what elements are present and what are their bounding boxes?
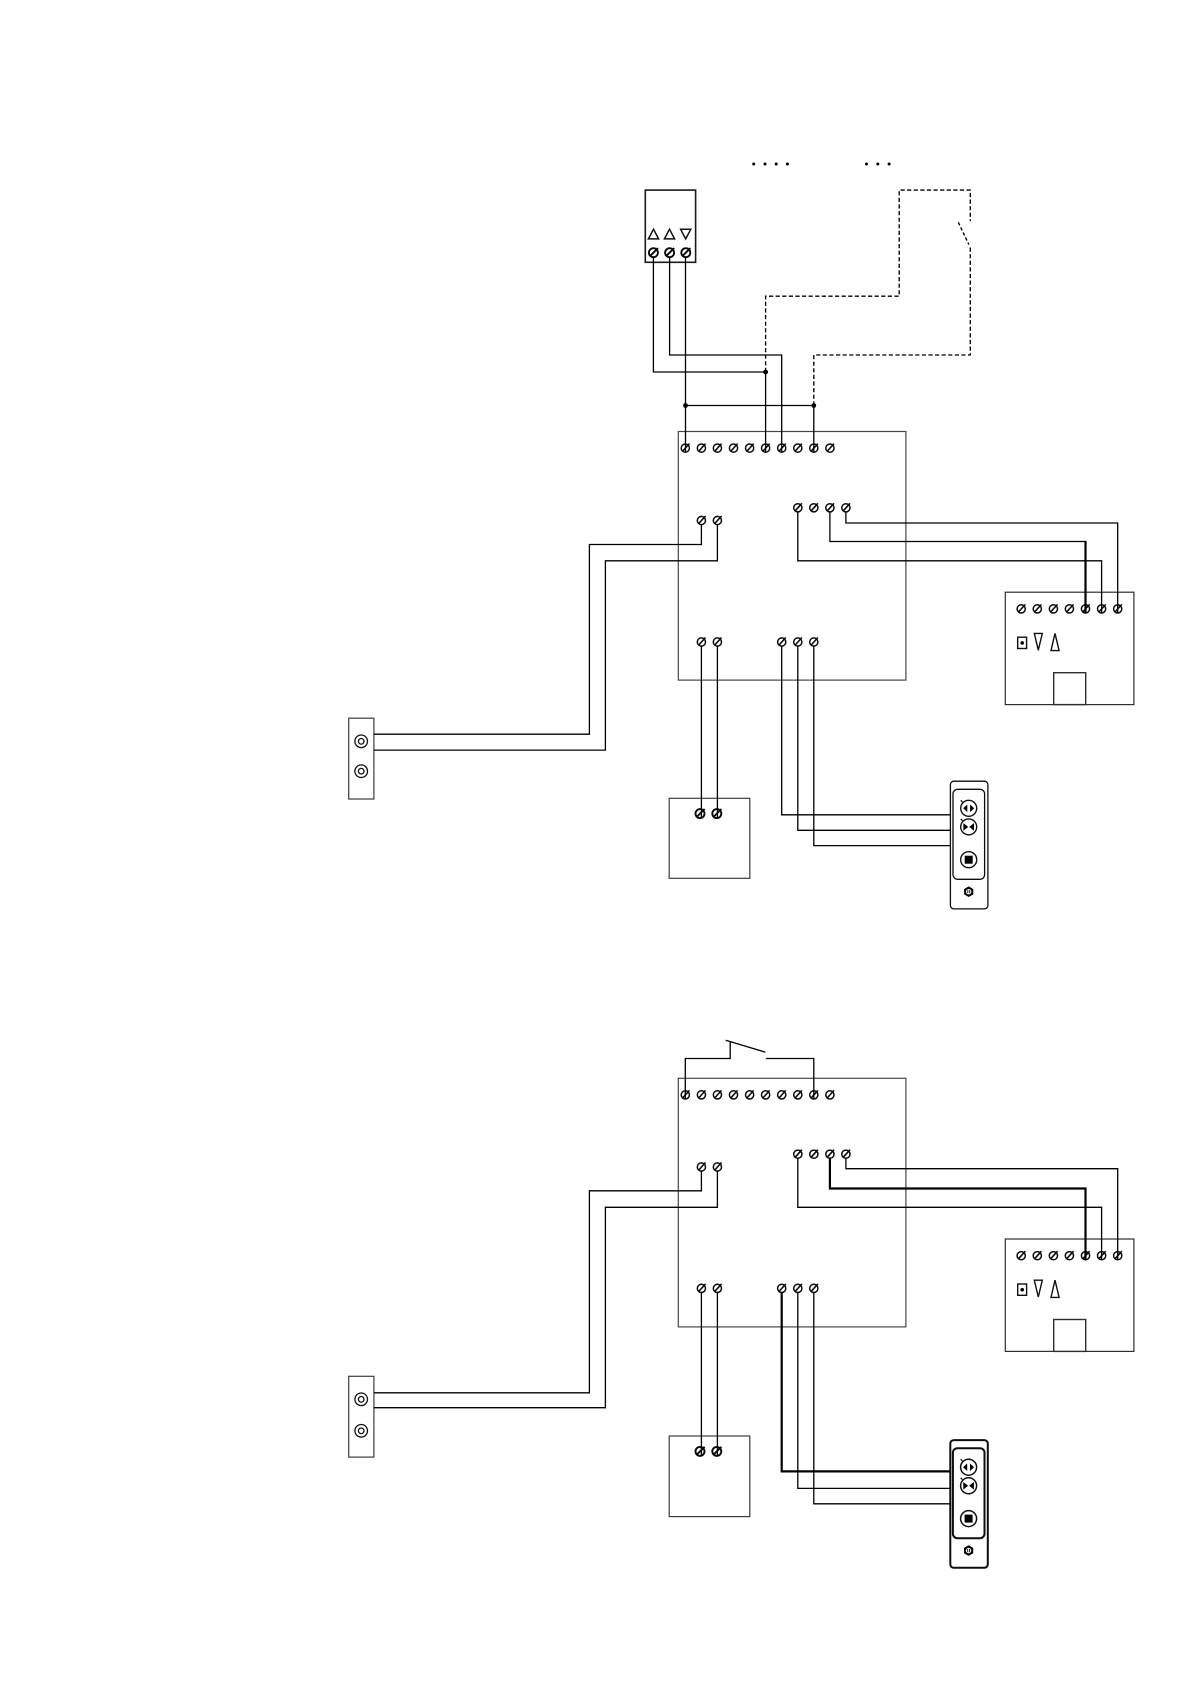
wire U2 out1 to motor M2 terminal 6 <box>798 1158 1102 1260</box>
R1 button panel <box>953 789 985 879</box>
wire U1 out3 to motor M1 terminal 5 (bold riser) <box>1084 541 1086 613</box>
U2 sensor-input terminals (2 screws) <box>697 1163 721 1172</box>
R2 programming screw (hex nut) <box>964 1545 973 1556</box>
R2 open button <box>961 1459 977 1475</box>
wire U1 out4 to motor M1 terminal 7 <box>846 512 1118 613</box>
M1 limit adjuster (square with dot) <box>1018 637 1027 648</box>
U1 bottom terminal trio <box>778 638 818 647</box>
junction box K1 <box>669 798 750 878</box>
SW2 lever <box>726 1040 766 1052</box>
wire S1 pin1 to U1 terminal 6 <box>653 257 765 452</box>
wire U2 bottom pair to junction box K2 (right) <box>716 1293 718 1456</box>
M1 down-limit symbol <box>1034 633 1042 650</box>
wire U2 input2 to photocell B2 lower <box>374 1171 717 1408</box>
R2 close button <box>961 1478 977 1494</box>
wire U1 to remote R1 line 3 <box>814 646 951 845</box>
control unit U2 enclosure <box>678 1078 906 1327</box>
remote wall control R2 body <box>950 1440 988 1568</box>
wire U2 to remote R2 line 3 <box>814 1293 951 1504</box>
K1 terminal screws <box>696 809 722 818</box>
B1 lens lower <box>355 765 368 778</box>
wire S1 pin3 to U1 terminal 1 <box>685 257 687 452</box>
M1 up-limit symbol <box>1051 633 1059 650</box>
R1 open button <box>961 800 977 816</box>
U2 bottom terminal trio <box>778 1284 818 1293</box>
K2 terminal screws <box>696 1447 722 1456</box>
wire U1 to remote R1 line 1 <box>782 646 951 815</box>
wire U1 to remote R1 line 2 <box>798 646 951 830</box>
M1 terminal strip (7 screws) <box>1017 604 1122 613</box>
junction node bus left <box>683 403 688 408</box>
tubular motor M2 head <box>1005 1239 1134 1351</box>
wire U1 input1 to photocell B1 upper <box>374 525 701 735</box>
wire U2 out4 to motor M2 terminal 7 <box>846 1158 1118 1260</box>
wall pushbutton transmitter S1 (up/up/down) <box>645 190 695 262</box>
U1 bottom terminal pair <box>697 638 721 647</box>
M1 crown adapter notch <box>1054 673 1086 705</box>
M2 crown adapter notch <box>1054 1320 1086 1352</box>
M2 up-limit symbol <box>1051 1280 1059 1297</box>
external switch contact (dashed lever) <box>958 222 969 244</box>
tubular motor M1 head <box>1005 592 1134 704</box>
U1 motor-output terminals (4 screws) <box>794 503 850 512</box>
R1 stop button <box>961 852 977 868</box>
R1 close button <box>961 819 977 835</box>
continuation dots group 1 <box>752 163 789 166</box>
external switch SW2 wiring (left leg) <box>685 1042 730 1100</box>
wire U1 out3 to motor M1 terminal 5 (horizontal) <box>830 512 1086 542</box>
U2 motor-output terminals (4 screws) <box>794 1150 850 1159</box>
M2 limit adjuster (square with dot) <box>1018 1284 1027 1295</box>
M2 terminal strip (7 screws) <box>1017 1251 1122 1260</box>
U1 terminal strip (10 screws) <box>681 444 834 453</box>
photocell sensor B2 body <box>349 1376 374 1457</box>
wire U2 input1 to photocell B2 upper <box>374 1171 701 1393</box>
R2 stop button <box>961 1511 977 1527</box>
wire U1 out1 to motor M1 terminal 6 <box>798 512 1102 613</box>
photocell sensor B1 body <box>349 718 374 799</box>
junction box K2 <box>669 1436 750 1517</box>
R1 programming screw (hex nut) <box>964 886 973 897</box>
R2 button panel <box>953 1448 985 1538</box>
dashed wire to external switch (upper branch) <box>766 190 971 372</box>
junction node on terminal-6 riser <box>763 370 768 375</box>
continuation dots group 2 <box>865 163 891 166</box>
U2 bottom terminal pair <box>697 1284 721 1293</box>
B1 lens upper <box>355 735 368 748</box>
wire U2 bottom pair to junction box K2 (left) <box>700 1293 702 1456</box>
control unit U1 enclosure <box>678 432 906 681</box>
external switch SW2 wiring (right leg) <box>766 1059 814 1100</box>
B2 lens upper <box>355 1393 368 1406</box>
wire U2 out3 to motor M2 terminal 5 (bold) <box>830 1158 1086 1260</box>
wire U1 bottom pair to junction box K1 (left) <box>700 646 702 818</box>
wire U1 input2 to photocell B1 lower <box>374 525 717 750</box>
B2 lens lower <box>355 1425 368 1438</box>
M2 down-limit symbol <box>1034 1280 1042 1297</box>
neutral bus wire to U1 terminal 9 <box>686 406 814 453</box>
remote wall control R1 body <box>950 781 988 909</box>
U1 sensor-input terminals (2 screws) <box>697 516 721 525</box>
wire S1 pin2 to U1 terminal 7 <box>670 257 782 452</box>
wire U2 to remote R2 line 2 <box>798 1293 951 1489</box>
U2 terminal strip (10 screws) <box>681 1090 834 1099</box>
dashed wire from external switch (lower branch) <box>814 248 971 406</box>
junction node bus right <box>811 403 816 408</box>
wire U2 to remote R2 line 1 (bold) <box>782 1293 951 1472</box>
wire U1 bottom pair to junction box K1 (right) <box>716 646 718 818</box>
S1 terminal screws (pins 1,2,3) <box>649 248 690 257</box>
